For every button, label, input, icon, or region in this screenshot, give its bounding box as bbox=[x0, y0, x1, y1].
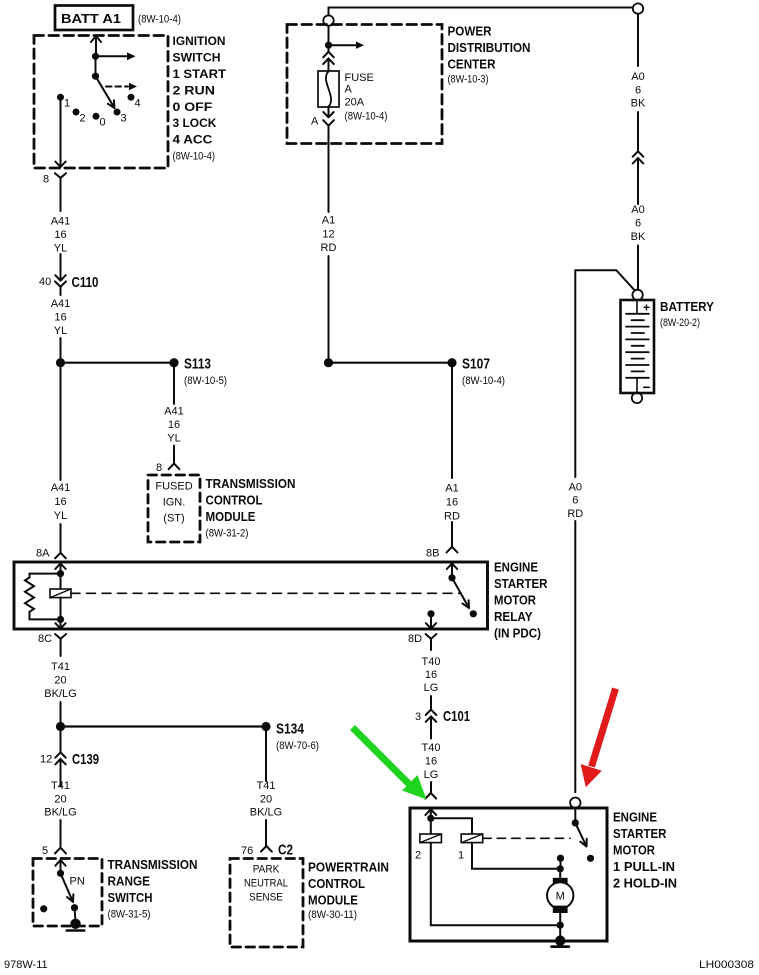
wire arrow right from feed node bbox=[99, 55, 127, 57]
svg-text:PARK: PARK bbox=[253, 864, 280, 876]
ground bar below starter bbox=[552, 945, 569, 948]
svg-text:3: 3 bbox=[415, 711, 421, 723]
ground stud starter bbox=[555, 936, 565, 946]
svg-text:8: 8 bbox=[156, 462, 162, 474]
connector 8A fork at relay bbox=[55, 553, 66, 559]
svg-text:IGNITION: IGNITION bbox=[173, 34, 226, 48]
wire left main A41 down to relay bbox=[60, 368, 62, 480]
svg-text:ENGINE: ENGINE bbox=[494, 560, 538, 575]
exit arrow 8D inside relay bbox=[426, 614, 436, 629]
svg-text:RANGE: RANGE bbox=[108, 874, 151, 889]
svg-text:YL: YL bbox=[54, 325, 67, 337]
arrow to other circuits bbox=[332, 44, 356, 46]
relay switch blade with arrowhead bbox=[452, 578, 469, 608]
svg-text:12: 12 bbox=[40, 754, 52, 766]
wire S134 branch down bbox=[265, 731, 267, 781]
svg-text:2: 2 bbox=[80, 113, 86, 125]
red pointer arrow bbox=[581, 689, 616, 788]
coil 1 pull-in bbox=[461, 834, 483, 843]
svg-text:MODULE: MODULE bbox=[308, 893, 358, 908]
svg-text:M: M bbox=[556, 891, 565, 903]
exit arrow 8C inside relay bbox=[55, 619, 65, 628]
in-line connector chevrons on BK wire bbox=[633, 151, 644, 166]
connector pin 8 fork at TCM bbox=[169, 464, 180, 470]
svg-text:(8W-31-2): (8W-31-2) bbox=[206, 528, 249, 540]
power distribution center box (dashed) bbox=[287, 25, 442, 144]
entry arrow inside starter bbox=[425, 809, 436, 815]
engine starter motor relay box bbox=[14, 562, 488, 629]
svg-text:T40: T40 bbox=[422, 742, 441, 754]
motor brush bottom bbox=[553, 906, 568, 913]
wire A0 6 BK segment 4 bbox=[637, 246, 639, 290]
wire contact stub bbox=[560, 858, 562, 869]
wire segment to 8A bbox=[60, 524, 62, 553]
svg-text:A0: A0 bbox=[631, 71, 644, 83]
svg-text:A41: A41 bbox=[51, 482, 71, 494]
svg-text:S134: S134 bbox=[276, 721, 305, 738]
contact 0 bbox=[93, 113, 100, 120]
node starter switch pivot bbox=[572, 819, 579, 826]
svg-text:(8W-10-4): (8W-10-4) bbox=[462, 375, 505, 387]
svg-text:16: 16 bbox=[425, 756, 437, 768]
connector 8B fork at relay bbox=[447, 547, 458, 553]
svg-text:A1: A1 bbox=[322, 215, 335, 227]
wire battery positive branch to starter feed bbox=[575, 270, 635, 477]
svg-text:(ST): (ST) bbox=[163, 513, 184, 525]
connector pin 76 fork at PCM C2 bbox=[261, 846, 272, 852]
wire contact 1 down to box edge, arrow down bbox=[55, 97, 65, 167]
svg-text:CENTER: CENTER bbox=[448, 57, 497, 72]
wire A0 6 BK segment 1 bbox=[637, 14, 639, 66]
wire T41 20 BK/LG to TRS bbox=[60, 820, 62, 848]
svg-text:8C: 8C bbox=[38, 633, 52, 645]
transmission range switch box (dashed) bbox=[33, 859, 102, 927]
svg-text:A41: A41 bbox=[51, 216, 71, 228]
wire below S134 junction bbox=[60, 731, 62, 752]
TRS switch blade with arrowhead bbox=[61, 873, 74, 902]
connector chevrons into fuse bbox=[323, 49, 334, 71]
entry arrow inside TRS bbox=[55, 860, 65, 870]
svg-text:6: 6 bbox=[635, 85, 641, 97]
node battery feed terminal circle bbox=[633, 3, 643, 13]
node battery negative terminal circle bbox=[632, 393, 642, 403]
battery negative post stub bbox=[637, 378, 649, 392]
wire terminal to bus node bbox=[328, 26, 330, 42]
svg-text:TRANSMISSION: TRANSMISSION bbox=[206, 476, 296, 491]
connector fork at starter motor bbox=[425, 793, 436, 799]
svg-text:16: 16 bbox=[446, 497, 458, 509]
svg-text:BK: BK bbox=[631, 231, 646, 243]
svg-text:RD: RD bbox=[567, 508, 583, 520]
svg-text:3: 3 bbox=[121, 113, 127, 125]
svg-text:20: 20 bbox=[260, 794, 272, 806]
svg-text:POWER: POWER bbox=[448, 24, 493, 39]
svg-text:(8W-30-11): (8W-30-11) bbox=[308, 909, 357, 921]
svg-text:(8W-10-5): (8W-10-5) bbox=[184, 375, 227, 387]
wire motor to bottom junction bbox=[559, 913, 561, 922]
svg-text:RD: RD bbox=[321, 242, 337, 254]
wire T40 16 LG to starter bbox=[430, 782, 432, 793]
wire branch to pull-in coil bbox=[431, 818, 472, 834]
svg-text:NEUTRAL: NEUTRAL bbox=[244, 878, 288, 890]
node relay common contact bbox=[448, 574, 455, 581]
node motor feed junction bbox=[557, 865, 564, 872]
svg-text:A: A bbox=[311, 116, 319, 128]
svg-text:C101: C101 bbox=[443, 708, 470, 725]
wire PN contact to ground bbox=[74, 908, 77, 920]
svg-text:POWERTRAIN: POWERTRAIN bbox=[308, 860, 389, 875]
exit arrow A below fuse bbox=[323, 107, 333, 117]
wire terminal circle to switch bbox=[574, 808, 576, 820]
svg-text:T41: T41 bbox=[257, 780, 276, 792]
connector chevron A bbox=[323, 120, 334, 143]
in-line connector C101 (cavity 3) bbox=[426, 710, 437, 739]
svg-text:8D: 8D bbox=[408, 633, 422, 645]
svg-text:20: 20 bbox=[54, 675, 66, 687]
svg-text:YL: YL bbox=[54, 510, 67, 522]
svg-text:(8W-10-3): (8W-10-3) bbox=[448, 74, 489, 86]
splice S107 junction dot (left) bbox=[324, 358, 333, 367]
wire splice tie line to S134 bbox=[61, 725, 267, 727]
wire feed to wiper pivot bbox=[95, 56, 97, 76]
wire A1 12 RD lower bbox=[328, 144, 330, 213]
node wiper pivot bbox=[92, 73, 99, 80]
svg-text:A0: A0 bbox=[569, 482, 582, 494]
wire A41 16 YL segment to splice bbox=[60, 338, 62, 358]
svg-text:S113: S113 bbox=[184, 356, 211, 373]
svg-text:2 HOLD-IN: 2 HOLD-IN bbox=[613, 876, 677, 891]
svg-text:16: 16 bbox=[168, 419, 180, 431]
svg-text:40: 40 bbox=[39, 276, 51, 288]
svg-text:BK/LG: BK/LG bbox=[44, 807, 76, 819]
contact 2 bbox=[73, 109, 80, 116]
powertrain control module box (dashed) bbox=[230, 859, 303, 948]
svg-text:BK/LG: BK/LG bbox=[44, 688, 76, 700]
svg-text:(8W-10-4): (8W-10-4) bbox=[138, 14, 181, 26]
node starter switch contact bbox=[587, 855, 594, 862]
svg-text:BATT A1: BATT A1 bbox=[61, 11, 121, 26]
svg-text:LG: LG bbox=[424, 769, 439, 781]
connector 8D fork below relay bbox=[426, 634, 437, 650]
contact 1 bbox=[57, 94, 64, 101]
svg-text:0: 0 bbox=[100, 117, 106, 129]
svg-text:(8W-10-4): (8W-10-4) bbox=[345, 111, 388, 123]
svg-text:A1: A1 bbox=[445, 483, 458, 495]
svg-text:(8W-10-4): (8W-10-4) bbox=[173, 151, 216, 163]
svg-text:(8W-31-5): (8W-31-5) bbox=[108, 909, 151, 921]
wire A1 16 RD to relay 8B bbox=[451, 522, 453, 547]
entry arrow 8A inside relay bbox=[55, 563, 65, 570]
wire S107 branch down bbox=[451, 367, 453, 478]
wire T40 16 LG to C101 bbox=[430, 696, 432, 709]
wire A0 6 RD segment to starter bbox=[574, 521, 576, 792]
svg-text:S107: S107 bbox=[462, 356, 490, 373]
splice S134 dot bbox=[261, 722, 270, 731]
svg-text:FUSED: FUSED bbox=[155, 481, 192, 493]
svg-text:T40: T40 bbox=[422, 656, 441, 668]
svg-text:20A: 20A bbox=[345, 97, 365, 109]
component BATT A1 terminal box bbox=[55, 6, 133, 31]
svg-text:978W-11: 978W-11 bbox=[4, 959, 48, 970]
wire splice tie line to S107 bbox=[329, 362, 453, 364]
svg-text:BK: BK bbox=[631, 98, 646, 110]
svg-text:16: 16 bbox=[54, 496, 66, 508]
ground bar below TRS bbox=[67, 929, 84, 932]
battery plates bbox=[626, 314, 649, 378]
svg-text:FUSE: FUSE bbox=[345, 72, 374, 84]
svg-text:RD: RD bbox=[444, 511, 460, 523]
dashed arrow (wiper travel) bbox=[106, 86, 128, 88]
svg-text:YL: YL bbox=[167, 433, 180, 445]
svg-text:20: 20 bbox=[54, 794, 66, 806]
splice S134 junction dot (left) bbox=[56, 722, 65, 731]
in-line connector C110 (cavity 40) bbox=[55, 271, 66, 295]
wire hold-in vertical bbox=[430, 818, 432, 834]
svg-text:8A: 8A bbox=[36, 548, 50, 560]
relay coil K1 bbox=[50, 589, 71, 598]
svg-text:3 LOCK: 3 LOCK bbox=[173, 116, 217, 130]
node relay output to 8D bbox=[427, 610, 434, 617]
splice S113 junction dot (left) bbox=[56, 358, 65, 367]
node relay NO contact bbox=[470, 610, 477, 617]
connector pin 5 fork at TRS bbox=[55, 848, 66, 854]
node TRS PN contact bbox=[71, 904, 78, 911]
in-line connector C139 (cavity 12) bbox=[55, 752, 65, 786]
svg-text:LH000308: LH000308 bbox=[699, 959, 754, 970]
svg-text:76: 76 bbox=[241, 845, 253, 857]
svg-text:5: 5 bbox=[42, 845, 48, 857]
svg-text:C2: C2 bbox=[278, 842, 293, 859]
dashed actuation line solenoid to contact bbox=[483, 837, 570, 839]
svg-text:+: + bbox=[643, 301, 650, 315]
wire A1 12 RD to splice bbox=[328, 256, 330, 358]
svg-text:DISTRIBUTION: DISTRIBUTION bbox=[448, 40, 531, 55]
svg-text:SENSE: SENSE bbox=[249, 892, 283, 904]
fuse A 20A bbox=[318, 71, 339, 107]
starter switch blade with arrowhead bbox=[575, 823, 586, 847]
switch wiper blade to position 3 bbox=[96, 76, 115, 108]
wire arrow up into BATT A1 bbox=[91, 36, 101, 56]
svg-text:ENGINE: ENGINE bbox=[613, 810, 657, 825]
svg-text:1: 1 bbox=[64, 98, 70, 110]
svg-text:MOTOR: MOTOR bbox=[494, 593, 537, 608]
svg-text:T41: T41 bbox=[51, 661, 70, 673]
ground stud TRS bbox=[70, 919, 80, 929]
wire to TCM connector bbox=[173, 446, 175, 464]
engine starter motor box bbox=[410, 808, 607, 941]
wire coil vertical top bbox=[60, 574, 62, 589]
node relay coil top bbox=[57, 570, 64, 577]
svg-text:0 OFF: 0 OFF bbox=[173, 100, 213, 114]
node battery positive terminal circle bbox=[632, 290, 642, 300]
wire A0 6 BK segment 3 bbox=[637, 166, 639, 204]
svg-text:8B: 8B bbox=[426, 548, 439, 560]
svg-text:1: 1 bbox=[458, 850, 464, 862]
node TRS open contact bbox=[40, 905, 47, 912]
green pointer arrow bbox=[353, 728, 427, 800]
svg-text:16: 16 bbox=[54, 229, 66, 241]
connector 8C fork below relay bbox=[55, 634, 66, 656]
connector 8 fork below ignition switch bbox=[55, 173, 66, 211]
svg-text:MOTOR: MOTOR bbox=[613, 843, 656, 858]
wire hold-in coil to motor bottom bbox=[431, 843, 557, 926]
svg-text:A41: A41 bbox=[164, 406, 184, 418]
battery positive post stub bbox=[636, 302, 638, 314]
svg-text:(8W-70-6): (8W-70-6) bbox=[276, 740, 319, 752]
node relay coil bottom bbox=[57, 616, 64, 623]
coil 2 hold-in bbox=[420, 834, 442, 843]
svg-text:12: 12 bbox=[322, 229, 334, 241]
svg-text:6: 6 bbox=[635, 218, 641, 230]
svg-text:CONTROL: CONTROL bbox=[206, 493, 263, 508]
wire S113 branch down bbox=[173, 367, 175, 404]
dashed actuation line coil to contacts bbox=[71, 592, 461, 594]
svg-text:LG: LG bbox=[424, 682, 439, 694]
svg-text:16: 16 bbox=[425, 669, 437, 681]
svg-text:TRANSMISSION: TRANSMISSION bbox=[108, 857, 198, 872]
svg-text:A0: A0 bbox=[631, 204, 644, 216]
entry arrow 8B inside relay bbox=[447, 563, 457, 574]
splice S107 dot bbox=[447, 358, 456, 367]
battery case bbox=[621, 300, 655, 393]
svg-text:YL: YL bbox=[54, 243, 67, 255]
wire top feed run bbox=[329, 8, 633, 16]
svg-text:6: 6 bbox=[572, 495, 578, 507]
contact 3 bbox=[114, 109, 121, 116]
svg-text:SWITCH: SWITCH bbox=[108, 890, 153, 905]
wire junction to ground stud bbox=[559, 925, 561, 937]
node motor bottom junction bbox=[557, 922, 564, 929]
svg-text:IGN.: IGN. bbox=[163, 497, 186, 509]
svg-text:8: 8 bbox=[43, 174, 49, 186]
node starter hold-in feed bbox=[427, 815, 434, 822]
contact 4 bbox=[128, 94, 135, 101]
wire T41 20 BK/LG to PCM bbox=[265, 820, 267, 846]
node PDC bus bbox=[325, 42, 332, 49]
svg-text:CONTROL: CONTROL bbox=[308, 876, 365, 891]
svg-text:STARTER: STARTER bbox=[613, 826, 667, 841]
splice S113 dot bbox=[169, 358, 178, 367]
wire A0 6 BK segment 2 bbox=[637, 112, 639, 151]
svg-text:1 START: 1 START bbox=[173, 67, 227, 81]
svg-text:BATTERY: BATTERY bbox=[660, 299, 714, 314]
svg-text:A41: A41 bbox=[51, 298, 71, 310]
transmission control module box (dashed) bbox=[148, 475, 200, 542]
svg-text:1 PULL-IN: 1 PULL-IN bbox=[613, 859, 675, 874]
svg-text:STARTER: STARTER bbox=[494, 576, 548, 591]
wire motor feed down bbox=[559, 869, 561, 878]
ignition switch box (dashed) bbox=[34, 36, 168, 169]
svg-text:T41: T41 bbox=[51, 780, 70, 792]
svg-text:PN: PN bbox=[70, 876, 85, 888]
svg-text:SWITCH: SWITCH bbox=[173, 50, 221, 64]
node TRS common bbox=[57, 870, 64, 877]
node PDC feed terminal circle bbox=[323, 15, 333, 25]
svg-text:2: 2 bbox=[415, 850, 421, 862]
svg-text:A: A bbox=[345, 84, 353, 96]
svg-text:4: 4 bbox=[135, 98, 141, 110]
svg-text:(IN PDC): (IN PDC) bbox=[494, 626, 541, 641]
wire coil vertical bottom bbox=[60, 598, 62, 620]
svg-text:2 RUN: 2 RUN bbox=[173, 83, 216, 97]
svg-text:BK/LG: BK/LG bbox=[250, 807, 282, 819]
svg-text:RELAY: RELAY bbox=[494, 609, 533, 624]
wire A41 16 YL segment to C110 bbox=[60, 254, 62, 272]
svg-text:16: 16 bbox=[54, 312, 66, 324]
motor M bbox=[547, 882, 573, 908]
resistor (relay suppression) bbox=[25, 574, 57, 620]
wire pull-in coil to motor terminal bbox=[472, 843, 557, 869]
node starter feed terminal circle bbox=[570, 798, 580, 808]
wire splice tie line to S113 bbox=[61, 362, 175, 364]
svg-text:C139: C139 bbox=[72, 751, 99, 768]
svg-text:C110: C110 bbox=[72, 274, 99, 291]
svg-text:MODULE: MODULE bbox=[206, 509, 256, 524]
svg-text:(8W-20-2): (8W-20-2) bbox=[660, 317, 700, 329]
svg-text:4 ACC: 4 ACC bbox=[173, 133, 213, 147]
node solenoid contact stub top bbox=[557, 855, 564, 862]
wire T41 20 BK/LG below 8C bbox=[60, 702, 62, 722]
node ignition switch feed bbox=[92, 53, 99, 60]
motor brush top bbox=[553, 878, 568, 885]
